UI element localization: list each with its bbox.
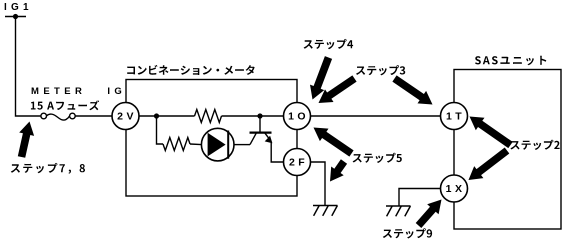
svg-text:METER IG: METER IG bbox=[31, 86, 126, 97]
ground G1 hatch 3 bbox=[332, 206, 338, 216]
ground G1 hatch 2 bbox=[323, 206, 329, 216]
arrow step 2 upper (to 1T) bbox=[470, 117, 513, 149]
transistor Q1 lead from LED wire up to bar bbox=[250, 133, 256, 144]
transistor Q1 emitter lead bbox=[265, 133, 270, 139]
arrow step 4 bbox=[310, 56, 332, 99]
pin 1T circle bbox=[441, 103, 468, 130]
LED D1 triangle bbox=[208, 133, 226, 157]
resistor R2 (lower branch) bbox=[163, 138, 190, 151]
LED D1 cathode bar bbox=[227, 131, 229, 159]
ground G2 hatch 1 bbox=[387, 206, 393, 216]
junction B dot bbox=[257, 113, 262, 118]
label step 5 bbox=[353, 153, 402, 163]
ground G2 hatch 3 bbox=[405, 206, 411, 216]
svg-text:1 O: 1 O bbox=[288, 111, 306, 123]
wire emitter down and right to pin 2F bbox=[271, 142, 284, 163]
label step 7,8 bbox=[11, 163, 85, 174]
label step 4 bbox=[304, 39, 354, 49]
label step 2 bbox=[510, 140, 559, 150]
svg-text:2 V: 2 V bbox=[117, 111, 134, 123]
svg-text:1 X: 1 X bbox=[446, 183, 463, 195]
svg-text:1 T: 1 T bbox=[446, 111, 462, 123]
transistor Q1 emitter arrowhead bbox=[265, 136, 273, 144]
arrow step 3 right (to 1T) bbox=[392, 75, 432, 104]
pin 1O circle bbox=[284, 103, 311, 130]
wire fuse to pin 2V bbox=[75, 115, 112, 117]
transistor Q1 base bar bbox=[250, 132, 272, 134]
label step 9 bbox=[383, 228, 432, 238]
SAS unit box bbox=[454, 70, 561, 230]
svg-text:2 F: 2 F bbox=[289, 157, 305, 169]
ground G2 hatch 2 bbox=[396, 206, 402, 216]
fuse F1 element wavy line bbox=[47, 114, 70, 120]
ground G1 hatch 1 bbox=[314, 206, 320, 216]
wire R2 to LED D1 bbox=[190, 143, 201, 146]
wire pin 2F right to ground G1 bbox=[310, 162, 325, 206]
combination meter box bbox=[126, 80, 297, 197]
wire LED D1 to transistor Q1 base side bbox=[234, 144, 250, 146]
arrow step 5 lower (to 2F ground wire) bbox=[330, 159, 347, 181]
wire pin 1X to ground G2 bbox=[399, 189, 441, 207]
ground G1 bar bbox=[313, 205, 338, 207]
wire IG1 down to fuse row bbox=[16, 17, 42, 117]
transistor Q1 collector lead from junction B bbox=[259, 116, 261, 132]
pin 2V circle bbox=[112, 103, 139, 130]
wire 2V to junction A bbox=[140, 115, 195, 117]
fuse F1 left terminal circle bbox=[41, 113, 47, 119]
SAS unit box label bbox=[475, 56, 546, 66]
junction dot on IG1 bar bbox=[13, 14, 18, 19]
svg-text:IG1: IG1 bbox=[4, 2, 33, 13]
node IG1 terminal bar bbox=[5, 16, 26, 18]
junction A dot bbox=[154, 113, 159, 118]
arrow step 9 (to 1X) bbox=[416, 200, 442, 229]
arrow step 7,8 bbox=[18, 122, 34, 158]
fuse F1 value label 15 A fuse bbox=[31, 100, 99, 110]
wire R1 to junction B bbox=[222, 115, 285, 117]
pin 2F circle bbox=[284, 149, 311, 176]
combination meter box label bbox=[127, 65, 255, 75]
arrow step 5 upper (to 1O lower right) bbox=[314, 128, 354, 157]
arrow step 2 lower (to 1X) bbox=[469, 148, 510, 181]
arrow step 3 left (to 1O) bbox=[319, 75, 357, 103]
resistor R1 (top branch) bbox=[195, 110, 222, 123]
wire junction A down to lower branch bbox=[157, 116, 164, 144]
ground G2 bar bbox=[386, 205, 411, 207]
fuse F1 right terminal circle bbox=[70, 113, 76, 119]
label step 3 bbox=[356, 65, 405, 75]
pin 1X circle bbox=[441, 175, 468, 202]
LED D1 indicator lamp circle bbox=[201, 128, 234, 161]
wire pin 1O to pin 1T bbox=[310, 115, 441, 117]
